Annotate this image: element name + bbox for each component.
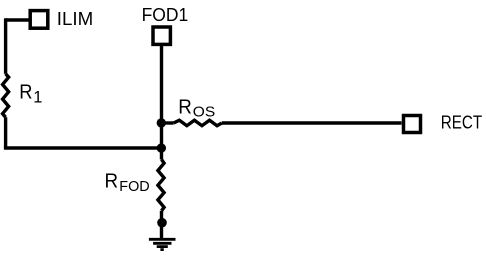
node B junction dot <box>157 143 166 152</box>
svg-text:FOD: FOD <box>119 178 150 195</box>
svg-text:R: R <box>105 171 119 193</box>
svg-text:FOD1: FOD1 <box>142 5 189 25</box>
node A junction dot <box>157 118 166 127</box>
resistor R1 <box>3 74 9 117</box>
terminal RECT <box>404 116 421 133</box>
terminal ILIM <box>30 11 48 29</box>
node C junction dot <box>157 218 167 228</box>
resistor RFOD <box>158 160 164 211</box>
svg-text:R: R <box>178 96 192 118</box>
wire ROS to RECT terminal <box>222 121 402 124</box>
svg-text:RECT: RECT <box>441 113 482 133</box>
svg-text:OS: OS <box>193 104 215 121</box>
wire RFOD to ground <box>160 211 163 238</box>
svg-text:ILIM: ILIM <box>57 9 93 29</box>
wire left rail lower segment <box>4 117 7 148</box>
wire bottom horizontal to node B <box>4 146 162 149</box>
wire FOD1 vertical down to node B and RFOD <box>160 45 163 160</box>
ground <box>149 239 176 249</box>
svg-text:1: 1 <box>33 88 42 106</box>
wire left rail upper segment <box>4 18 7 74</box>
resistor ROS <box>174 120 222 126</box>
svg-text:R: R <box>19 81 32 104</box>
terminal FOD1 <box>153 27 170 44</box>
wire node A to resistor ROS <box>162 121 174 124</box>
wire top-left from ILIM terminal to left rail <box>6 18 29 21</box>
